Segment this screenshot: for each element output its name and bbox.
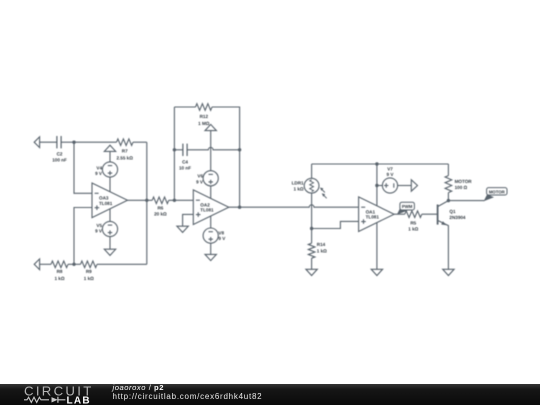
photoresistor LDR1: [304, 178, 327, 198]
svg-text:2.55 kΩ: 2.55 kΩ: [116, 155, 133, 160]
wire R5 to Q1 base: [422, 213, 438, 215]
svg-text:R9: R9: [86, 269, 92, 274]
svg-text:TL081: TL081: [99, 201, 113, 206]
svg-text:9 V: 9 V: [196, 179, 204, 184]
svg-text:V4: V4: [96, 166, 102, 171]
svg-text:MOTOR: MOTOR: [455, 179, 473, 184]
wire OA1 negative supply to ground: [376, 223, 378, 270]
label R7 2.55 kOhm: [116, 148, 133, 160]
wire junction to OA1 non-inverting input: [312, 221, 359, 228]
svg-text:PWM: PWM: [402, 204, 413, 209]
svg-text:C4: C4: [182, 159, 188, 164]
svg-text:Q1: Q1: [449, 209, 456, 214]
svg-text:100 Ω: 100 Ω: [455, 185, 468, 190]
svg-text:9 V: 9 V: [218, 236, 226, 241]
resistor R9: [81, 261, 98, 268]
label R9 1 kOhm: [84, 269, 94, 281]
wire R12 to feedback right rail: [212, 107, 240, 207]
voltage source V7 (horizontal): [382, 178, 397, 193]
wire OA2 non-inverting input to ground: [183, 214, 194, 226]
svg-text:9 V: 9 V: [95, 229, 103, 234]
svg-text:R5: R5: [410, 221, 416, 226]
resistor R14: [308, 243, 315, 258]
svg-text:1 kΩ: 1 kΩ: [294, 187, 304, 192]
ground below OA1: [371, 269, 382, 275]
svg-text:MOTOR: MOTOR: [489, 189, 506, 194]
node C4 right junction: [238, 148, 241, 151]
wire V8 to ground: [210, 243, 212, 254]
resistor R5: [405, 211, 422, 218]
svg-text:9 V: 9 V: [387, 172, 395, 177]
svg-text:1 MΩ: 1 MΩ: [198, 121, 210, 126]
label R12 1 MOhm: [198, 114, 210, 126]
wire OA3 non-inverting input to bottom node: [74, 208, 92, 265]
op-amp OA1 TL081: [359, 197, 395, 232]
ground at OA2 non-inverting input: [177, 226, 188, 232]
wire R9 to feedback rail: [97, 263, 147, 265]
input port IN1 (top left): [34, 137, 57, 148]
logo resistor zigzag: [24, 397, 49, 402]
wire LDR1 top stem: [311, 164, 313, 178]
label R5 1 kOhm: [408, 221, 418, 232]
svg-text:R8: R8: [57, 269, 63, 274]
svg-text:OA1: OA1: [366, 209, 376, 214]
svg-text:V5: V5: [96, 223, 102, 228]
wire R14 to ground: [311, 258, 313, 269]
transistor Q1 2N3904: [438, 201, 449, 270]
footer bar: [0, 384, 540, 405]
wire V6 to OA2 positive supply: [210, 186, 212, 199]
wire feedback rail vertical: [146, 142, 148, 264]
resistor R8: [51, 261, 68, 268]
label V6 9 V: [196, 174, 204, 185]
svg-text:OA3: OA3: [99, 195, 109, 200]
wire OA2 negative supply to V8: [210, 216, 212, 229]
svg-text:1 kΩ: 1 kΩ: [317, 248, 327, 253]
node collector junction: [447, 199, 450, 202]
resistor R6: [152, 197, 169, 204]
resistor R12: [196, 104, 213, 111]
voltage source V8: [203, 228, 218, 243]
svg-text:V8: V8: [218, 230, 224, 235]
svg-text:100 nF: 100 nF: [52, 158, 67, 163]
wire V5 to ground: [109, 236, 111, 249]
label V7 9 V: [387, 167, 395, 177]
wire V7 right lead: [397, 185, 411, 187]
svg-text:TL081: TL081: [200, 208, 214, 213]
svg-text:R12: R12: [200, 114, 209, 119]
CircuitLab logo: [16, 384, 116, 410]
svg-text:1 kΩ: 1 kΩ: [84, 276, 94, 281]
label R14 1 kOhm: [317, 242, 327, 253]
label V4 9 V: [95, 166, 103, 177]
label R6 20 kOhm: [154, 206, 167, 217]
wire feedback left rail: [173, 107, 175, 200]
wire R8 to node N2: [68, 263, 81, 265]
voltage source V5: [102, 221, 117, 236]
node OA3 output junction: [145, 199, 148, 202]
flipped ground for V6: [205, 124, 216, 170]
node OA2 inverting input junction: [173, 199, 176, 202]
svg-text:1 kΩ: 1 kΩ: [54, 276, 64, 281]
op-amp OA3 TL081: [92, 183, 128, 218]
svg-text:R14: R14: [317, 242, 326, 247]
voltage source V6: [203, 171, 218, 186]
wire V4 to OA3 positive supply: [109, 177, 111, 192]
node OA2 output junction: [238, 206, 241, 209]
wire OA3 output: [128, 199, 153, 201]
label Q1 2N3904: [449, 209, 466, 220]
footer credit text: [113, 384, 413, 405]
svg-text:LAB: LAB: [67, 396, 91, 406]
wire R6 to OA2 inverting input: [169, 199, 194, 201]
svg-text:20 kΩ: 20 kΩ: [154, 212, 167, 217]
wire MOTOR resistor to collector node: [447, 193, 449, 201]
label MOTOR 100 Ohm: [455, 179, 473, 190]
wire R14 top stem: [311, 229, 313, 244]
svg-text:C2: C2: [57, 152, 63, 157]
node C4 left junction: [173, 148, 176, 151]
label V5 9 V: [95, 223, 103, 234]
output port at V7: [411, 180, 417, 191]
svg-text:LDR1: LDR1: [292, 181, 304, 186]
wire C4 to right rail with crossover hop: [187, 147, 240, 149]
svg-text:R7: R7: [122, 148, 128, 153]
svg-text:1 kΩ: 1 kΩ: [408, 226, 418, 231]
svg-text:TL081: TL081: [366, 215, 380, 220]
wire V7 left lead: [377, 185, 383, 187]
capacitor C2: [57, 136, 61, 148]
wire N1 down to OA3 inverting input: [74, 142, 92, 193]
flag PWM: [397, 202, 415, 214]
wire OA2 output to OA1 inverting input with hop over LDR branch: [229, 205, 359, 207]
ground below V5: [104, 249, 115, 255]
wire feedback top to R12: [174, 106, 195, 108]
svg-text:OA2: OA2: [200, 202, 210, 207]
node top rail / V7 branch junction: [375, 162, 378, 165]
svg-text:R6: R6: [157, 206, 163, 211]
label R8 1 kOhm: [54, 269, 64, 281]
wire node N1 to R7: [74, 141, 117, 143]
node N2 junction: [72, 263, 75, 266]
ground below R14: [306, 269, 317, 275]
svg-text:V6: V6: [197, 174, 203, 179]
svg-text:10 nF: 10 nF: [179, 165, 191, 170]
flag MOTOR: [484, 188, 507, 202]
voltage source V4: [102, 162, 117, 177]
svg-text:9 V: 9 V: [95, 171, 103, 176]
op-amp OA2 TL081: [193, 190, 229, 225]
wire OA3 negative supply to V5: [109, 209, 111, 222]
wire top supply rail: [312, 163, 449, 165]
node N1 junction: [72, 141, 75, 144]
node V7 tap junction: [375, 184, 378, 187]
node LDR/R14 junction: [310, 227, 313, 230]
input port IN2 (bottom left): [34, 259, 51, 270]
logo diode: [52, 397, 58, 402]
ground below V8: [205, 254, 216, 260]
wire C2 to node N1: [61, 141, 74, 143]
resistor R7: [117, 139, 134, 146]
capacitor C4: [183, 144, 187, 156]
wire C4 branch left: [174, 149, 182, 151]
wire top rail to MOTOR resistor: [447, 164, 449, 176]
wire V7 branch vertical upper: [376, 164, 378, 206]
wire R7 to feedback rail: [133, 141, 147, 143]
flipped ground for V4: [104, 145, 115, 162]
resistor MOTOR 100 Ohm: [445, 176, 452, 193]
label C2 100 nF: [52, 152, 67, 163]
wire OA1 output to R5: [394, 213, 405, 215]
label LDR1 1 kOhm: [292, 181, 304, 192]
label C4 10 nF: [179, 159, 191, 170]
label V8 9 V: [218, 230, 226, 241]
wire collector to MOTOR flag: [448, 200, 484, 202]
wire LDR1 bottom stem: [311, 193, 313, 228]
svg-text:2N3904: 2N3904: [449, 215, 466, 220]
ground below Q1 emitter: [443, 269, 454, 275]
